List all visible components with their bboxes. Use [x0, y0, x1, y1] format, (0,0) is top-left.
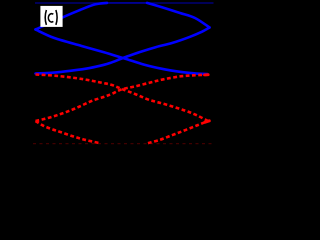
panel label (c): white box — [40, 6, 62, 27]
faint red dashed zone-boundary guide line (bottom) — [33, 143, 212, 145]
red dashed flat-bottom band right arc — [148, 121, 208, 143]
panel label glyph ) — [56, 10, 57, 25]
panel label glyph c — [48, 14, 53, 22]
blue flat-top band U_B left arc — [36, 3, 108, 30]
blue flat-top band U_B right arc — [147, 3, 210, 28]
red dashed flat-bottom band left arc — [36, 121, 101, 143]
red solid tip at right meeting point T5 — [205, 73, 209, 76]
red dashed band R1 (upper left descending through red X to lower right vertex) — [36, 75, 209, 122]
red solid tip at red right vertex T6 — [205, 121, 209, 122]
panel label glyph ( — [45, 10, 46, 25]
blue flat-top band U_B faint middle flat section — [107, 2, 148, 4]
faint blue zone-boundary guide line (top) — [35, 2, 214, 4]
red dashed band R2 (lower left vertex rising through red X to upper right) — [36, 75, 208, 121]
blue band B2 (left vertex descending through X crossing to right) — [36, 30, 208, 75]
blue band B3 (left meeting point rising through X crossing to right vertex) — [36, 28, 210, 74]
